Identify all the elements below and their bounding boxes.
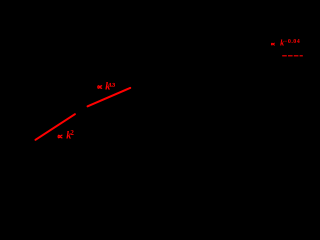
svg-text:2: 2 bbox=[70, 129, 74, 137]
fit line k^1.3 bbox=[88, 88, 131, 106]
label: propto k^1.3 bbox=[98, 86, 102, 89]
label: propto k^2 bbox=[58, 135, 62, 138]
svg-text:−0.04: −0.04 bbox=[284, 39, 300, 45]
svg-text:1.3: 1.3 bbox=[109, 83, 115, 89]
dashed fit line k^-0.04 bbox=[282, 55, 303, 57]
fit line k^2 bbox=[36, 114, 75, 140]
label: propto k^-0.04 bbox=[271, 43, 274, 45]
